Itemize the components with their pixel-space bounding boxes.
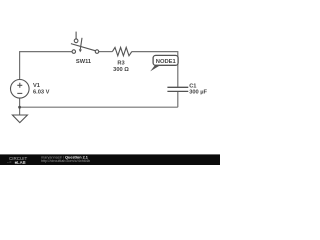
- ground: [12, 115, 27, 123]
- wire resistor to right corner: [132, 51, 178, 53]
- switch SW11: [71, 32, 99, 54]
- footer bar: [0, 154, 220, 165]
- voltage source V1: [10, 80, 29, 99]
- junction dot: [18, 106, 21, 109]
- svg-text:6.03 V: 6.03 V: [33, 90, 50, 96]
- svg-text:300 Ω: 300 Ω: [113, 67, 129, 73]
- svg-text:SW11: SW11: [76, 59, 91, 65]
- capacitor C1: [167, 87, 188, 91]
- wire right vertical upper: [177, 51, 179, 87]
- svg-text:NODE1: NODE1: [156, 59, 177, 65]
- svg-text:http://circuitlab.com/c/4xh64b: http://circuitlab.com/c/4xh64b: [41, 159, 90, 163]
- svg-text:300 µF: 300 µF: [189, 90, 207, 96]
- svg-text:■LAB: ■LAB: [15, 160, 26, 165]
- wire switch to resistor: [99, 51, 113, 53]
- node NODE1 flag tail: [150, 65, 161, 72]
- switch actuator arrowhead: [79, 49, 82, 52]
- wire left vertical: [19, 51, 21, 80]
- svg-text:--=: --=: [7, 161, 12, 165]
- resistor R3: [112, 47, 131, 55]
- wire right vertical lower: [177, 92, 179, 108]
- wire V1 bottom to junction: [19, 98, 21, 107]
- wire bottom horizontal: [20, 106, 178, 108]
- svg-text:V1: V1: [33, 83, 40, 89]
- svg-text:R3: R3: [117, 61, 124, 67]
- wire junction to ground: [19, 107, 21, 115]
- node NODE1 flag box: [153, 55, 178, 65]
- svg-text:C1: C1: [189, 84, 196, 90]
- wire top-left horizontal: [20, 51, 72, 53]
